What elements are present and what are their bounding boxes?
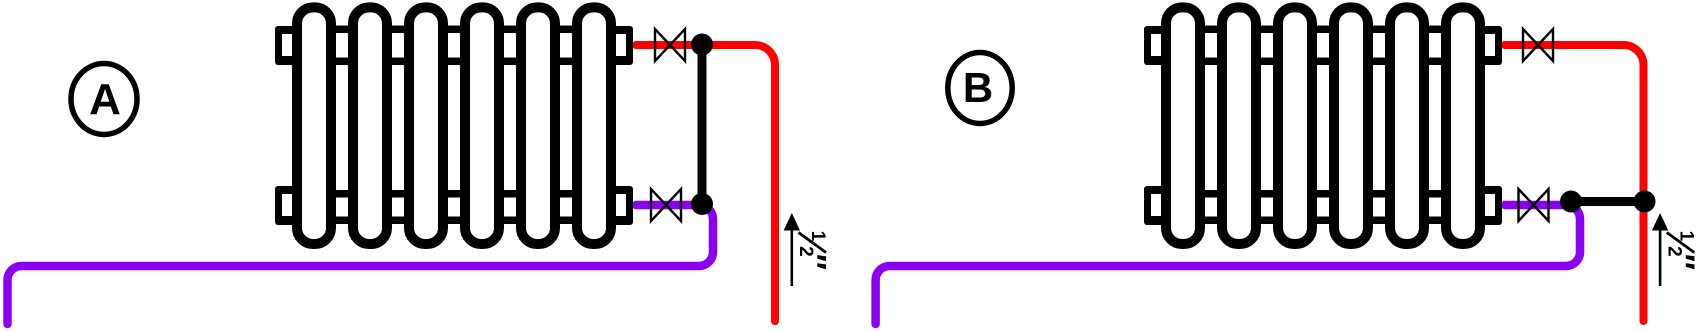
node A2 (return/bypass junction) — [691, 193, 713, 215]
size label 1/2&quot; A — [795, 231, 833, 270]
radiator A section link — [446, 26, 462, 34]
label circle B — [948, 53, 1012, 124]
bypass pipe A (vertical) — [698, 45, 707, 205]
radiator B section 1 — [1166, 7, 1200, 244]
radiator B section link — [1203, 26, 1219, 34]
radiator A section link — [390, 26, 406, 34]
svg-text:″: ″ — [795, 254, 833, 270]
radiator B section 3 — [1278, 7, 1312, 244]
pipe-size arrow A — [784, 213, 800, 286]
radiator B section 5 — [1390, 7, 1424, 244]
radiator A section 3 — [409, 7, 443, 244]
radiator A section 6 — [577, 7, 611, 244]
valve A supply — [655, 29, 685, 61]
radiator A section 4 — [465, 7, 499, 244]
radiator A tab — [613, 26, 633, 65]
radiator A section link — [502, 26, 518, 34]
return pipe (purple) B — [876, 205, 1580, 324]
radiator B tab — [1482, 26, 1502, 65]
radiator A section 5 — [521, 7, 555, 244]
radiator A section link — [558, 26, 574, 34]
radiator B section link — [1259, 26, 1275, 34]
return pipe (purple) A — [8, 205, 714, 324]
radiator A — [275, 7, 633, 244]
bypass pipe B (horizontal) — [1571, 197, 1645, 206]
svg-text:A: A — [89, 75, 121, 124]
radiator B tab — [1144, 186, 1164, 225]
size label 1/2&quot; B — [1663, 231, 1701, 270]
node B1 (return/bypass junction) — [1560, 191, 1582, 213]
valve B supply — [1523, 29, 1553, 61]
radiator B section link — [1315, 26, 1331, 34]
label circle A — [71, 64, 137, 135]
radiator B — [1144, 7, 1502, 244]
radiator B tab — [1482, 186, 1502, 225]
radiator A tab — [275, 186, 295, 225]
radiator A section 2 — [353, 7, 387, 244]
radiator A tab — [613, 186, 633, 225]
supply pipe (red) B — [1505, 45, 1644, 321]
radiator A section 1 — [297, 7, 331, 244]
svg-text:B: B — [963, 64, 993, 111]
radiator B tab — [1144, 26, 1164, 65]
radiator B section 2 — [1222, 7, 1256, 244]
svg-text:″: ″ — [1663, 254, 1701, 270]
radiator B section 6 — [1446, 7, 1480, 244]
radiator B section link — [1427, 26, 1443, 34]
valve B return — [1519, 189, 1549, 221]
supply pipe (red) A — [636, 45, 775, 321]
valve A return — [651, 189, 681, 221]
radiator A tab — [275, 26, 295, 65]
node A1 (supply/bypass junction) — [691, 34, 713, 56]
node B2 (bypass/supply junction) — [1634, 191, 1656, 213]
radiator B section link — [1371, 26, 1387, 34]
pipe-size arrow B — [1652, 213, 1668, 286]
radiator B section 4 — [1334, 7, 1368, 244]
radiator A section link — [334, 26, 350, 34]
